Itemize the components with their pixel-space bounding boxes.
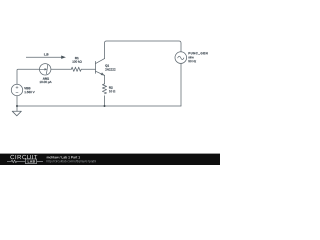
voltage source VBB circle [11,84,22,95]
resistor R2 [102,84,106,94]
junction dot at R2 / bottom rail [104,105,106,107]
wire emitter down to R2 [104,75,106,84]
label R1 [75,57,79,59]
ammeter AM1 circle [40,64,51,75]
logo wire with resistor zigzag [7,159,43,164]
wire collector to top rail across to FUNC_GEN [105,41,182,59]
VBB minus sign [16,91,19,93]
ammeter arrow line [40,68,44,70]
footer bar [0,154,220,165]
footer url [47,160,96,163]
footer title: mchlaw / Lab 1 Part 1 [47,156,80,158]
emitter arrowhead of Q1 [101,72,105,75]
bottom rail [17,105,181,107]
junction dot at VBB / ground [16,105,18,107]
wire R1 to base of Q1 [81,68,95,70]
value 10.00 uA [40,81,52,84]
label R2 [109,87,113,89]
value 2N2222 [105,68,115,70]
label VBB [24,87,30,89]
logo LAB text [28,160,35,162]
sine wave inside FUNC_GEN [178,56,184,59]
resistor R1 [71,67,81,71]
transistor Q1 base bar [95,61,97,73]
transistor Q1 emitter diagonal [96,71,105,75]
label AM1 [43,78,49,80]
VBB plus sign [16,86,19,92]
function generator FUNC_GEN circle [175,52,187,64]
wire VBB bottom to bottom rail [16,96,18,106]
wire ammeter to resistor R1 [51,68,71,70]
label I_B [44,53,48,55]
wire FUNC_GEN bottom to bottom rail [180,63,182,106]
logo CIRCUIT text [10,155,37,159]
value 50 Hz [188,60,196,62]
wire R2 bottom to bottom rail [104,96,106,106]
label Q1 [105,65,109,68]
label FUNC_GEN [189,52,208,54]
ground symbol [12,111,21,116]
ammeter needle [46,65,47,74]
ground stub [16,106,18,111]
wire top-left corner: horizontal to ammeter, vertical down to VBB [17,69,40,84]
logo LAB box [25,159,36,164]
ammeter arrowhead [45,68,48,70]
value 1.580 V [25,91,35,93]
value 100 kOhm [72,60,81,62]
transistor Q1 collector diagonal [96,59,105,64]
current arrow I_B [26,56,62,58]
value sine [188,56,193,58]
value 10 Ohm [109,90,115,92]
